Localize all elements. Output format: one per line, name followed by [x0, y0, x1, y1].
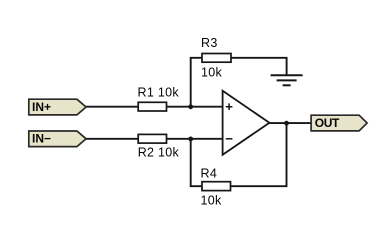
output node junction dot — [284, 121, 289, 126]
resistor R4 — [201, 167, 231, 208]
wire node B down to R4 — [191, 139, 202, 186]
wire IN+ to R1 — [86, 106, 138, 108]
wire IN- to R2 — [86, 138, 138, 140]
wire node to OUT flag — [287, 122, 312, 124]
op-amp plus input symbol — [226, 103, 233, 110]
wire R1 to op-amp noninverting input — [167, 106, 223, 108]
wire R4 to output node — [231, 123, 287, 186]
port flag IN- — [29, 131, 86, 147]
svg-text:IN−: IN− — [32, 132, 51, 146]
op-amp minus input symbol — [226, 138, 233, 140]
svg-text:10k: 10k — [201, 193, 223, 207]
op-amp U1 — [223, 91, 270, 155]
svg-text:R4: R4 — [201, 167, 218, 181]
wire node A up to R3 — [191, 58, 202, 107]
resistor R3 — [201, 36, 231, 80]
svg-text:IN+: IN+ — [32, 100, 51, 114]
svg-text:10k: 10k — [201, 66, 223, 80]
resistor R2 — [138, 134, 180, 159]
node B junction dot — [188, 137, 193, 142]
wire R3 to ground — [231, 58, 287, 75]
svg-text:R3: R3 — [201, 36, 218, 50]
wire R2 to op-amp inverting input — [167, 138, 223, 140]
svg-text:R1 10k: R1 10k — [138, 86, 180, 100]
port flag IN+ — [29, 99, 86, 115]
svg-text:R2 10k: R2 10k — [138, 146, 180, 160]
node A junction dot — [188, 104, 193, 109]
port flag OUT — [311, 115, 367, 131]
svg-text:OUT: OUT — [315, 116, 340, 130]
resistor R1 — [138, 86, 180, 111]
ground — [271, 75, 303, 85]
wire op-amp output to node OUT — [269, 122, 286, 124]
